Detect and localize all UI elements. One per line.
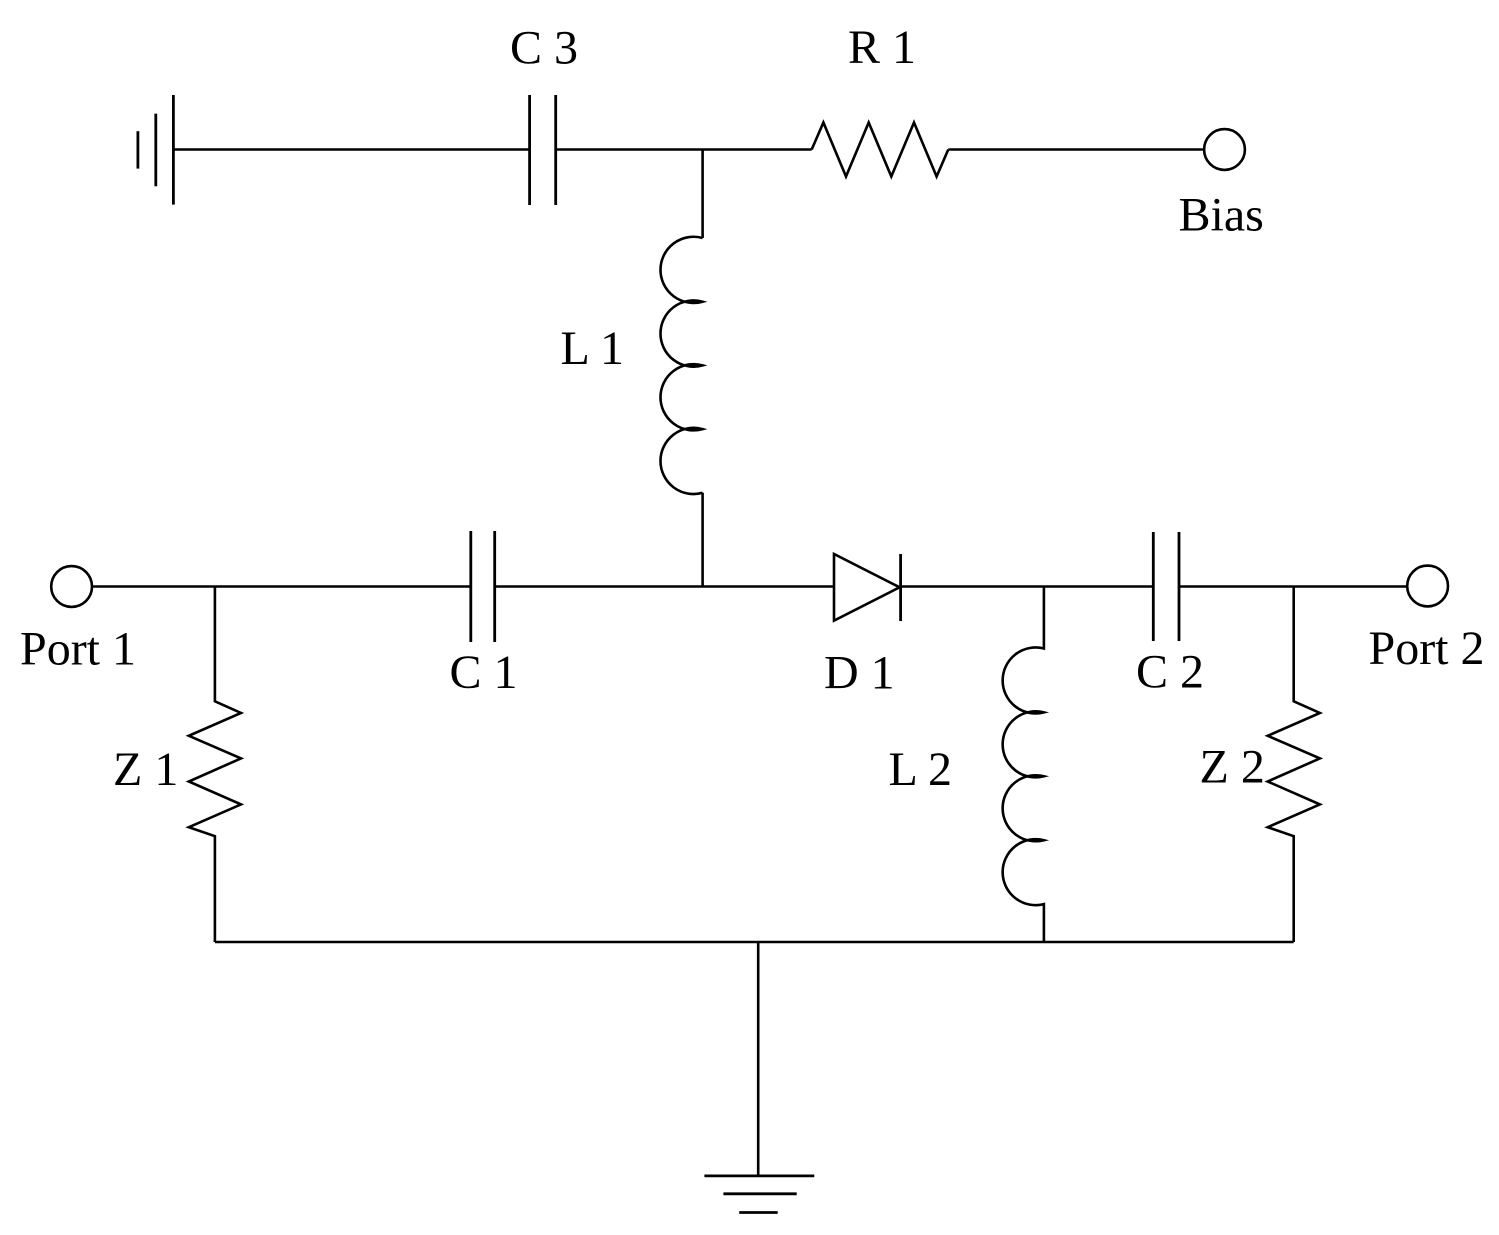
wire: C2 to Port 2 (1179, 585, 1408, 588)
terminal Port 1 (51, 566, 92, 607)
wire: R1 to Bias terminal (948, 148, 1204, 151)
wire: node N1 down to L1 (701, 150, 704, 239)
svg-text:C 2: C 2 (1136, 646, 1204, 699)
wire: bottom rail (215, 941, 1294, 944)
capacitor C3 (530, 95, 556, 205)
wire: D1 to C2 (900, 585, 1154, 588)
inductor L2 (1003, 587, 1044, 943)
capacitor C2 (1153, 532, 1179, 641)
svg-text:Z 2: Z 2 (1200, 741, 1265, 794)
capacitor C1 (471, 531, 495, 642)
diode D1 (834, 554, 900, 621)
resistor R1 (812, 123, 949, 177)
svg-text:C 3: C 3 (510, 22, 578, 75)
wire: Port 1 to C1 (92, 585, 471, 588)
wire: G1 to C3 (173, 148, 529, 151)
svg-text:L 1: L 1 (561, 322, 625, 375)
wire: C3 to node N1 (556, 148, 812, 151)
svg-text:Port 1: Port 1 (20, 623, 136, 676)
wire: bottom rail to ground G2 (757, 942, 760, 1175)
ground G1 (rotated, top-left) (138, 95, 174, 205)
ground G2 (bottom) (704, 1176, 814, 1213)
resistor Z1 (189, 587, 241, 943)
svg-text:Port 2: Port 2 (1369, 622, 1485, 675)
svg-text:L 2: L 2 (889, 743, 953, 796)
terminal Bias (1204, 129, 1245, 170)
svg-text:D 1: D 1 (824, 647, 895, 700)
svg-text:Bias: Bias (1179, 188, 1264, 241)
wire: C1 to diode D1 (495, 585, 834, 588)
svg-text:C 1: C 1 (450, 646, 518, 699)
inductor L1 (660, 237, 702, 494)
terminal Port 2 (1407, 566, 1448, 607)
resistor Z2 (1268, 587, 1320, 943)
svg-text:R 1: R 1 (848, 21, 916, 74)
svg-text:Z 1: Z 1 (113, 743, 178, 796)
wire: L1 to main rail node N2 (701, 493, 704, 587)
